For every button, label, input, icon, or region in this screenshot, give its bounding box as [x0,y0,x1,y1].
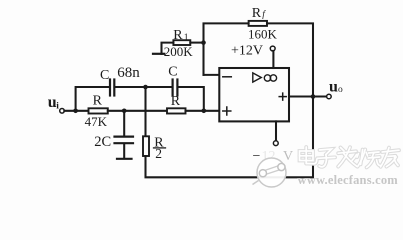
wire: R/2 bottom to output node (bootstrap) [146,99,314,178]
fa [341,148,345,152]
output terminal uo [327,94,332,99]
label 68n [117,65,140,81]
label R1 [173,28,189,43]
label ui [48,94,60,112]
capacitor C2 [173,80,178,96]
svg-text:R: R [171,94,181,109]
input terminal ui [60,109,65,114]
ground (R1) [153,53,164,55]
wire: node B down to R/2 (crosses bottom wire) [144,87,146,136]
svg-text:C: C [100,68,109,83]
label minus input [223,76,232,78]
svg-text:200K: 200K [164,44,194,59]
label 47K [85,114,108,129]
label 160K [248,26,278,41]
svg-text:2C: 2C [94,134,111,150]
svg-text:www.elecfans.com: www.elecfans.com [298,173,399,187]
you [382,150,399,152]
resistor Rf 160K [249,21,267,26]
svg-text:−: − [253,149,261,164]
label plus output [279,93,286,100]
label R [93,93,103,108]
op-amp gain symbol [253,73,277,82]
label +12V [231,44,263,59]
node: 2C junction [122,109,127,114]
svg-text:1: 1 [184,33,189,43]
ground (under 2C) [117,158,132,160]
label -12V [253,149,294,164]
svg-text:C: C [168,64,177,79]
label uo [329,79,343,96]
svg-text:47K: 47K [85,114,108,129]
+12V supply terminal [270,46,275,51]
wire: +12V to op-amp top [272,51,274,68]
label 2C [94,134,111,150]
node D: twin-T output junction [202,109,207,114]
svg-text:+12V: +12V [231,44,263,59]
svg-text:o: o [338,85,343,95]
label 200K [164,44,194,59]
svg-text:R: R [252,6,262,21]
svg-text:160K: 160K [248,26,278,41]
node: input junction [73,109,78,114]
wire: R to second R [108,110,167,112]
wire: second R to op-amp plus input [186,110,220,112]
wire: ui to R 47K [64,110,88,112]
svg-text:68n: 68n [117,65,140,81]
watermark logo [253,158,287,187]
wire: op-amp bottom to -12V terminal [275,121,277,140]
wire: C2 to node D [178,87,204,110]
svg-text:R: R [173,28,183,43]
svg-text:R: R [93,93,103,108]
zi [320,149,332,155]
wire: R1 left lead [162,43,174,54]
-12V supply terminal [273,141,278,146]
wire: Rf top wire right [267,23,313,94]
wire: C1 to node B [115,86,172,88]
wire: Rf top wire left [204,23,249,75]
svg-text:i: i [56,102,59,112]
resistor R/2 [143,136,149,156]
dian [300,151,314,161]
capacitor 2C [115,111,134,158]
resistor R (second) [167,108,186,113]
label R [171,94,181,109]
resistor R 47K [89,108,108,113]
capacitor C1 [110,80,114,96]
wire: R1 right lead to feedback node [190,42,203,44]
label plus input [223,107,231,115]
label C [100,68,109,83]
node: feedback node [201,40,206,45]
wire: feedback to minus input [204,74,220,76]
watermark chinese text [300,147,400,167]
label Rf [252,6,266,21]
svg-text:u: u [329,79,338,96]
wire: op-amp output to uo [289,95,327,97]
node: output junction [311,94,316,99]
label R/2 [154,136,164,162]
wire: up from input junction and top branch to C1 [76,87,110,111]
node B [143,85,148,90]
shao [361,150,363,165]
svg-text:V: V [283,149,293,164]
label C [168,64,177,79]
resistor R1 200K [173,40,190,45]
op-amp U1 [219,68,289,121]
